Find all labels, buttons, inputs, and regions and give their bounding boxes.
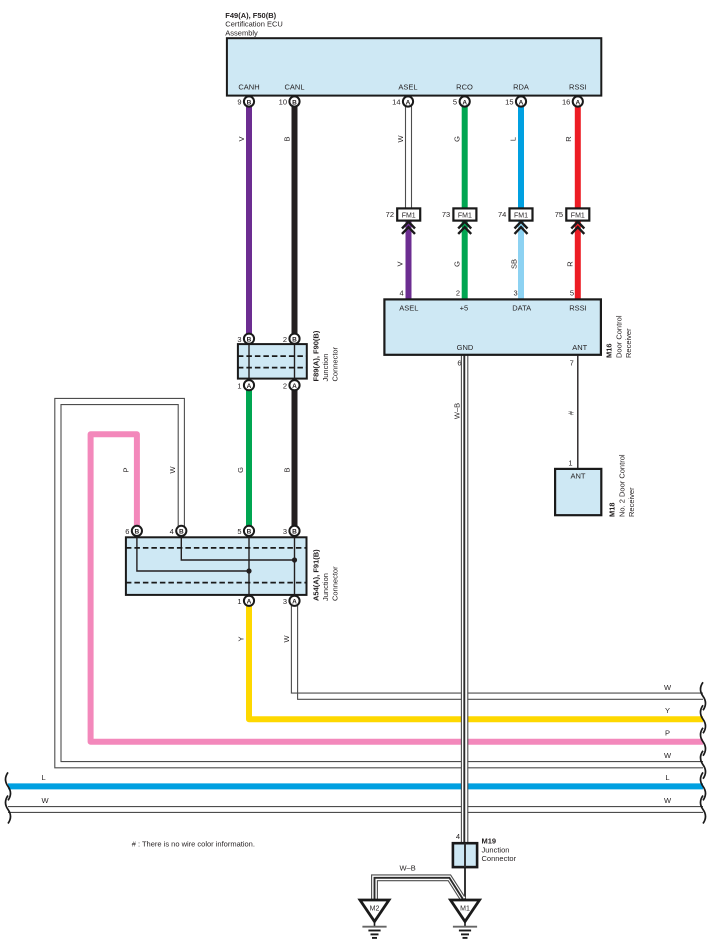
M18 No. 2 Door Control Receiver box [555, 454, 636, 517]
svg-text:Connector: Connector [331, 566, 340, 601]
svg-text:B: B [292, 99, 297, 106]
junction connector M19 [453, 832, 517, 867]
svg-text:ANT: ANT [572, 343, 587, 352]
svg-text:RDA: RDA [513, 83, 529, 92]
wire CANL B (pin 10 to junction F89 pin 2) [283, 106, 295, 334]
svg-text:W–B: W–B [399, 864, 415, 873]
svg-text:Junction: Junction [321, 354, 330, 382]
wire RSSI R (pin 16 to FM1 75) [564, 106, 578, 209]
svg-text:M1: M1 [460, 906, 470, 913]
svg-text:FM1: FM1 [514, 213, 528, 220]
svg-text:CANH: CANH [238, 83, 259, 92]
svg-text:M16: M16 [605, 343, 614, 358]
svg-text:3: 3 [283, 527, 287, 536]
svg-text:7: 7 [570, 359, 574, 368]
connector FM1 74 [498, 208, 533, 234]
svg-text:# : There is no wire color inf: # : There is no wire color information. [132, 840, 255, 849]
junction connector F89(A), F90(B) [238, 330, 340, 381]
break mark L left [6, 772, 11, 800]
svg-text:G: G [452, 136, 461, 142]
junction A54 pin 1 (A) [237, 596, 254, 606]
svg-text:M2: M2 [370, 906, 380, 913]
svg-text:A: A [575, 99, 580, 106]
connector FM1 75 [555, 208, 590, 234]
ECU assembly box F49(A), F50(B) [225, 11, 601, 96]
wire G (FM1 73 to M16 +5 pin 2) [453, 220, 465, 300]
svg-text:A: A [292, 599, 297, 606]
svg-text:1: 1 [237, 597, 241, 606]
svg-text:74: 74 [498, 210, 506, 219]
svg-text:73: 73 [442, 210, 450, 219]
wire B (junction F89 pin 2 to junction A54 pin 3) [282, 390, 294, 526]
svg-text:A: A [406, 99, 411, 106]
svg-text:M19: M19 [482, 836, 497, 845]
ground M1 [451, 900, 480, 938]
svg-text:ASEL: ASEL [399, 304, 418, 313]
svg-text:Connector: Connector [482, 854, 517, 863]
junction F89 pin 2 (B) [283, 334, 300, 344]
ground M2 [360, 900, 389, 938]
wire ASEL W (pin 14 to FM1 72) [396, 106, 411, 209]
svg-text:L: L [42, 773, 46, 782]
wire SB (FM1 74 to M16 DATA pin 3) [510, 220, 522, 300]
svg-text:W: W [41, 796, 49, 805]
wire W white full-width bus [8, 796, 703, 812]
svg-text:Y: Y [237, 636, 246, 641]
svg-text:1: 1 [237, 381, 241, 390]
junction F89 pin 1 (A) [237, 380, 254, 390]
wire M19 to ground M1 [464, 844, 466, 901]
svg-text:RCO: RCO [456, 83, 473, 92]
pin 9 (B) CANH [237, 96, 254, 106]
wire Y yellow (junction A54 pin 1 down, right bus) [237, 606, 704, 719]
svg-text:DATA: DATA [512, 304, 531, 313]
svg-text:RSSI: RSSI [569, 83, 587, 92]
svg-text:6: 6 [125, 527, 129, 536]
svg-text:G: G [236, 467, 245, 473]
svg-text:3: 3 [514, 288, 518, 297]
svg-text:2: 2 [283, 335, 287, 344]
svg-text:B: B [282, 467, 291, 472]
wire V (FM1 72 to M16 ASEL pin 4) [396, 220, 409, 300]
svg-text:5: 5 [453, 98, 457, 107]
pin 10 (B) CANL [279, 96, 300, 106]
wire W white (junction A54 pin 3 down, right bus W1) [282, 606, 703, 699]
svg-text:W: W [282, 635, 291, 643]
wire L blue full-width bus [8, 773, 703, 786]
svg-text:GND: GND [457, 343, 474, 352]
junction A54 pin 3 (B) [283, 526, 300, 536]
svg-text:P: P [665, 729, 670, 738]
junction A54 pin 4 (B) [170, 526, 187, 536]
svg-text:FM1: FM1 [458, 213, 472, 220]
svg-text:+5: +5 [460, 304, 469, 313]
svg-text:5: 5 [570, 288, 574, 297]
svg-text:Y: Y [665, 706, 670, 715]
svg-text:3: 3 [237, 335, 241, 344]
svg-text:R: R [566, 261, 575, 267]
svg-text:FM1: FM1 [571, 213, 585, 220]
svg-text:F49(A), F50(B): F49(A), F50(B) [225, 11, 276, 20]
wire W-B (M16 GND pin 6 down to M19) [453, 355, 468, 844]
wire W white (junction A54 pin 4 up, left, down to bus W2) [55, 398, 703, 767]
break mark L right [701, 772, 706, 800]
wire RCO G (pin 5 to FM1 73) [452, 106, 464, 209]
svg-text:B: B [292, 529, 297, 536]
svg-text:W: W [168, 466, 177, 474]
pin 5 (A) RCO [453, 96, 470, 106]
junction F89 pin 3 (B) [237, 334, 254, 344]
svg-text:A: A [462, 99, 467, 106]
svg-text:4: 4 [400, 288, 404, 297]
svg-text:Certification ECU: Certification ECU [225, 20, 283, 29]
svg-text:3: 3 [283, 597, 287, 606]
pin 14 (A) ASEL [392, 96, 413, 106]
break mark W2 right [701, 751, 706, 779]
svg-text:Assembly: Assembly [225, 28, 258, 37]
svg-text:16: 16 [562, 98, 570, 107]
svg-text:A54(A), F91(B): A54(A), F91(B) [312, 549, 321, 601]
svg-text:W–B: W–B [453, 403, 462, 419]
break mark W3 left [6, 796, 11, 824]
svg-text:W: W [664, 751, 672, 760]
svg-text:W: W [664, 683, 672, 692]
svg-text:14: 14 [392, 98, 400, 107]
svg-text:Junction: Junction [321, 573, 330, 601]
svg-text:B: B [179, 529, 184, 536]
wire G (junction F89 pin 1 to junction A54 pin 5) [236, 390, 249, 526]
svg-text:5: 5 [237, 527, 241, 536]
svg-text:2: 2 [456, 288, 460, 297]
wire R (FM1 75 to M16 RSSI pin 5) [566, 220, 578, 300]
svg-text:G: G [453, 261, 462, 267]
svg-text:No. 2 Door Control: No. 2 Door Control [618, 454, 627, 517]
break mark Y right [701, 705, 706, 733]
svg-text:A: A [247, 599, 252, 606]
pin 16 (A) RSSI [562, 96, 583, 106]
wire RDA L (pin 15 to FM1 74) [509, 106, 522, 209]
svg-text:W: W [396, 135, 405, 143]
svg-text:72: 72 [386, 210, 394, 219]
svg-text:ANT: ANT [571, 472, 586, 481]
svg-text:L: L [509, 137, 518, 141]
break mark W1 right [701, 682, 706, 710]
svg-text:#: # [567, 410, 576, 415]
svg-text:1: 1 [568, 458, 572, 467]
svg-text:A: A [247, 383, 252, 390]
svg-text:15: 15 [505, 98, 513, 107]
svg-text:ASEL: ASEL [398, 83, 417, 92]
svg-text:6: 6 [457, 359, 461, 368]
junction A54 pin 5 (B) [237, 526, 254, 536]
wire CANH V (pin 9 to junction F89 pin 3) [237, 106, 249, 334]
svg-text:A: A [292, 383, 297, 390]
svg-text:4: 4 [456, 832, 460, 841]
break mark P right [701, 728, 706, 756]
svg-text:V: V [396, 261, 405, 266]
note text [132, 840, 255, 849]
wire ANT # (M16 pin 7 to M18 pin 1) [567, 355, 578, 469]
svg-text:B: B [247, 337, 252, 344]
svg-text:A: A [519, 99, 524, 106]
svg-text:2: 2 [283, 381, 287, 390]
svg-text:75: 75 [555, 210, 563, 219]
break mark W3 right [701, 796, 706, 824]
wire P pink (junction A54 pin 6 up, left, down to bus) [91, 434, 703, 742]
svg-text:Receiver: Receiver [624, 328, 633, 358]
connector FM1 72 [386, 208, 421, 234]
pin 15 (A) RDA [505, 96, 526, 106]
svg-text:B: B [283, 136, 292, 141]
svg-text:4: 4 [170, 527, 174, 536]
junction connector A54(A), F91(B) [126, 537, 340, 601]
svg-text:P: P [121, 467, 130, 472]
svg-text:R: R [564, 136, 573, 142]
svg-text:B: B [247, 529, 252, 536]
junction F89 pin 2 (A) [283, 380, 300, 390]
svg-text:B: B [247, 99, 252, 106]
junction A54 pin 6 (B) [125, 526, 142, 536]
svg-text:F89(A), F90(B): F89(A), F90(B) [312, 330, 321, 381]
wire W-B branch to ground M2 [372, 864, 465, 901]
svg-text:10: 10 [279, 98, 287, 107]
svg-text:Door Control: Door Control [615, 315, 624, 358]
svg-text:FM1: FM1 [402, 213, 416, 220]
svg-text:SB: SB [510, 259, 519, 269]
svg-text:B: B [292, 337, 297, 344]
svg-text:B: B [135, 529, 140, 536]
svg-text:CANL: CANL [284, 83, 304, 92]
svg-text:9: 9 [237, 98, 241, 107]
M16 Door Control Receiver box [384, 288, 633, 367]
svg-text:W: W [664, 796, 672, 805]
svg-text:Connector: Connector [331, 346, 340, 381]
junction A54 pin 3 (A) [283, 596, 300, 606]
svg-text:M18: M18 [608, 502, 617, 517]
connector FM1 73 [442, 208, 477, 234]
svg-text:V: V [237, 136, 246, 141]
svg-text:L: L [665, 773, 669, 782]
svg-text:Receiver: Receiver [627, 487, 636, 517]
svg-text:RSSI: RSSI [569, 304, 587, 313]
